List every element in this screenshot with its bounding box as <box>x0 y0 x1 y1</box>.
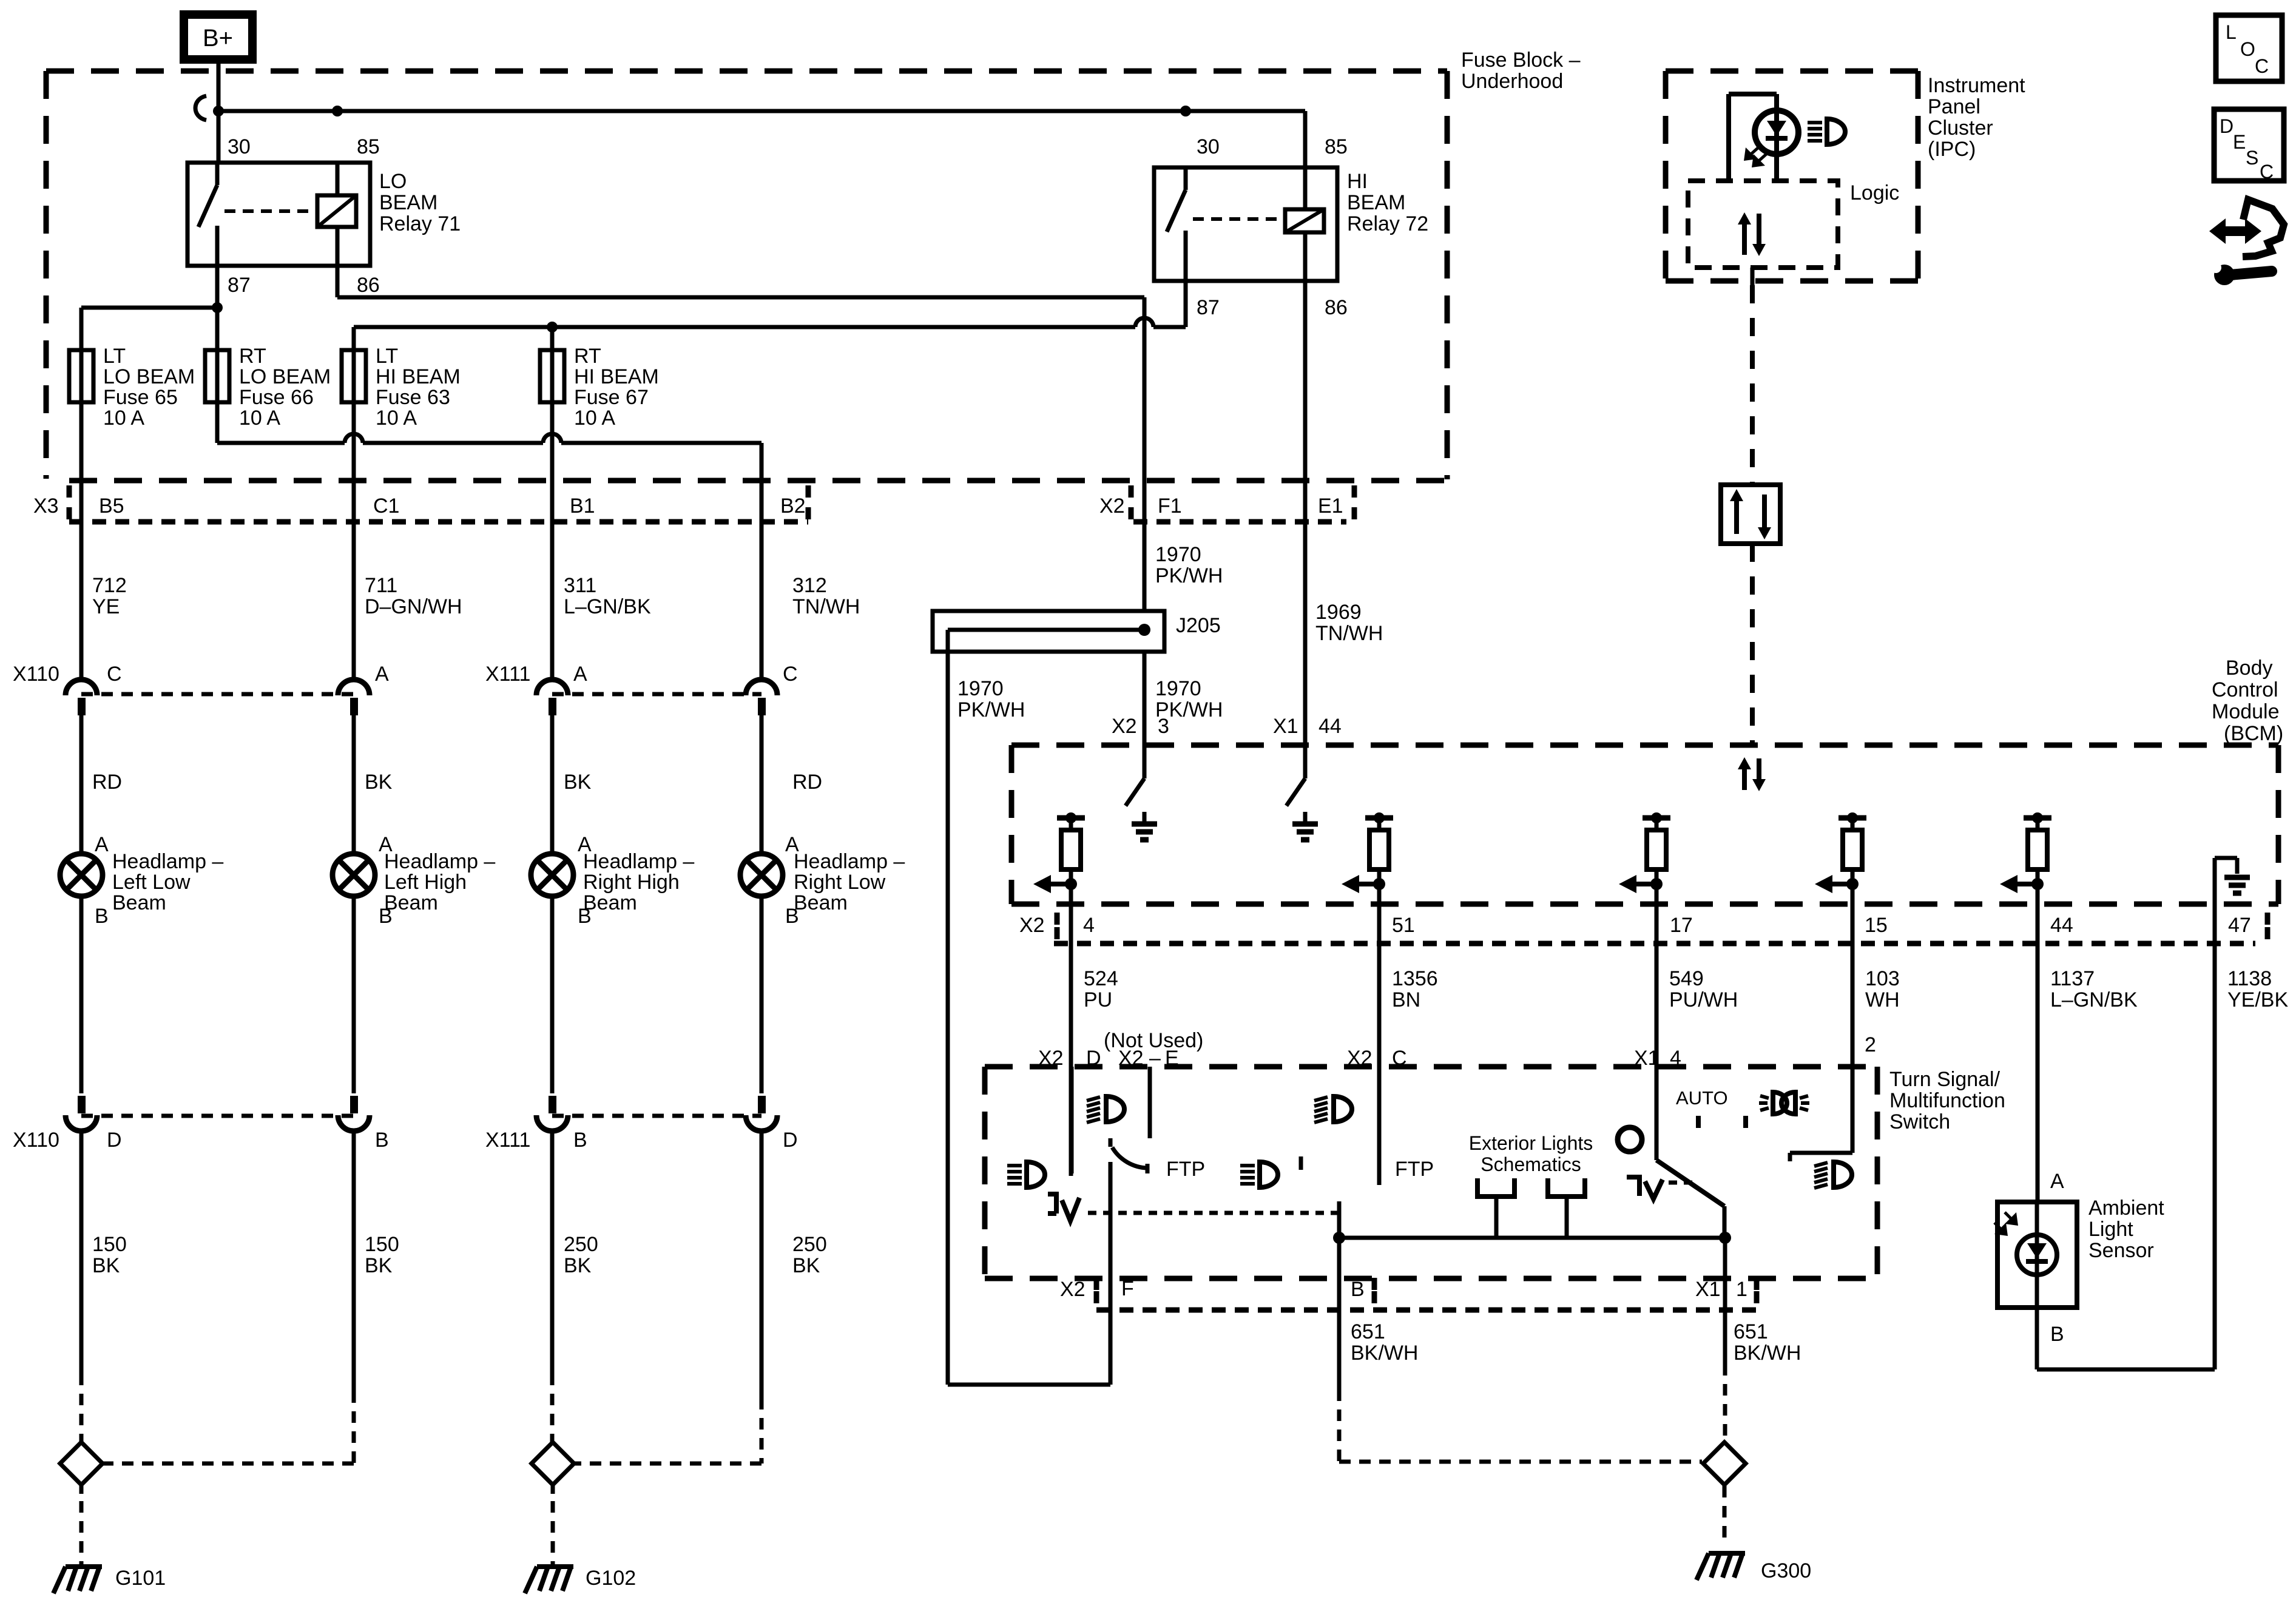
svg-text:PK/WH: PK/WH <box>1155 564 1223 587</box>
svg-text:BN: BN <box>1392 988 1420 1011</box>
svg-text:(IPC): (IPC) <box>1928 138 1976 161</box>
svg-text:150: 150 <box>365 1233 399 1256</box>
svg-text:RD: RD <box>792 771 822 794</box>
svg-text:E: E <box>2233 131 2246 153</box>
svg-text:FTP: FTP <box>1166 1158 1205 1181</box>
svg-text:C: C <box>107 663 122 686</box>
svg-text:G101: G101 <box>115 1567 166 1590</box>
svg-text:L: L <box>2226 21 2237 43</box>
svg-text:Body: Body <box>2226 657 2273 680</box>
svg-text:2: 2 <box>1865 1033 1876 1056</box>
svg-text:BK/WH: BK/WH <box>1351 1342 1418 1365</box>
svg-text:85: 85 <box>357 135 380 158</box>
svg-text:B: B <box>95 905 109 928</box>
svg-text:O: O <box>2240 38 2255 60</box>
svg-text:Left High: Left High <box>384 871 467 894</box>
svg-text:X3: X3 <box>33 495 59 518</box>
svg-text:10 A: 10 A <box>574 407 615 430</box>
svg-text:651: 651 <box>1734 1320 1768 1343</box>
svg-text:1970: 1970 <box>957 677 1004 700</box>
svg-text:Beam: Beam <box>794 891 848 914</box>
svg-text:X111: X111 <box>485 663 530 686</box>
svg-text:X111: X111 <box>485 1129 530 1152</box>
svg-text:(BCM): (BCM) <box>2224 722 2283 745</box>
svg-text:YE/BK: YE/BK <box>2227 988 2288 1011</box>
svg-text:86: 86 <box>1325 296 1348 319</box>
svg-text:312: 312 <box>792 574 827 597</box>
svg-text:Control: Control <box>2212 678 2278 701</box>
svg-text:15: 15 <box>1865 914 1888 937</box>
svg-text:S: S <box>2246 147 2258 169</box>
svg-text:Panel: Panel <box>1928 95 1980 118</box>
svg-text:BK: BK <box>564 771 592 794</box>
svg-text:Light: Light <box>2088 1218 2133 1241</box>
svg-text:87: 87 <box>228 274 251 297</box>
svg-text:10 A: 10 A <box>103 407 144 430</box>
svg-text:Headlamp –: Headlamp – <box>112 850 223 873</box>
svg-text:B: B <box>573 1129 587 1152</box>
svg-text:D: D <box>107 1129 122 1152</box>
svg-text:PK/WH: PK/WH <box>957 698 1025 721</box>
svg-text:1970: 1970 <box>1155 543 1201 566</box>
svg-text:Logic: Logic <box>1850 181 1899 204</box>
svg-text:BK: BK <box>365 1254 393 1277</box>
svg-text:1: 1 <box>1736 1278 1747 1301</box>
svg-text:RT: RT <box>574 345 601 368</box>
svg-text:BK: BK <box>564 1254 592 1277</box>
svg-text:Fuse Block –: Fuse Block – <box>1461 49 1581 72</box>
svg-text:Turn Signal/: Turn Signal/ <box>1889 1068 2001 1091</box>
svg-text:X2: X2 <box>1019 914 1045 937</box>
svg-text:B: B <box>578 905 592 928</box>
svg-text:LO: LO <box>379 170 407 193</box>
svg-text:4: 4 <box>1083 914 1095 937</box>
svg-text:Fuse 63: Fuse 63 <box>376 386 450 409</box>
svg-text:B: B <box>379 905 393 928</box>
svg-text:1969: 1969 <box>1315 601 1362 624</box>
svg-text:51: 51 <box>1392 914 1415 937</box>
svg-text:BEAM: BEAM <box>1347 191 1405 214</box>
svg-text:HI BEAM: HI BEAM <box>376 365 461 388</box>
svg-text:1137: 1137 <box>2050 967 2095 990</box>
svg-text:311: 311 <box>564 574 596 597</box>
svg-text:Switch: Switch <box>1889 1110 1950 1133</box>
svg-text:PU: PU <box>1084 988 1112 1011</box>
svg-text:X2: X2 <box>1112 715 1137 738</box>
svg-text:Relay 71: Relay 71 <box>379 212 461 235</box>
svg-text:L–GN/BK: L–GN/BK <box>2050 988 2138 1011</box>
svg-text:D: D <box>783 1129 798 1152</box>
svg-text:651: 651 <box>1351 1320 1385 1343</box>
svg-text:B: B <box>1351 1278 1365 1301</box>
svg-text:FTP: FTP <box>1395 1158 1434 1181</box>
svg-text:X1: X1 <box>1695 1278 1721 1301</box>
svg-text:86: 86 <box>357 274 380 297</box>
svg-text:BK: BK <box>92 1254 120 1277</box>
svg-text:524: 524 <box>1084 967 1118 990</box>
svg-text:B2: B2 <box>780 495 806 518</box>
svg-text:47: 47 <box>2228 914 2251 937</box>
svg-text:BK: BK <box>365 771 393 794</box>
svg-text:RD: RD <box>92 771 122 794</box>
svg-text:Instrument: Instrument <box>1928 74 2025 97</box>
svg-text:150: 150 <box>92 1233 127 1256</box>
svg-text:549: 549 <box>1669 967 1704 990</box>
svg-text:B1: B1 <box>570 495 595 518</box>
svg-text:J205: J205 <box>1176 614 1221 637</box>
svg-text:X2: X2 <box>1060 1278 1086 1301</box>
svg-text:Headlamp –: Headlamp – <box>794 850 905 873</box>
svg-text:X110: X110 <box>13 663 59 686</box>
svg-text:Left Low: Left Low <box>112 871 191 894</box>
svg-text:1970: 1970 <box>1155 677 1201 700</box>
svg-text:103: 103 <box>1865 967 1900 990</box>
svg-text:711: 711 <box>365 574 397 597</box>
svg-text:44: 44 <box>1319 715 1342 738</box>
svg-text:RT: RT <box>239 345 266 368</box>
svg-text:X110: X110 <box>13 1129 59 1152</box>
svg-text:Headlamp –: Headlamp – <box>384 850 495 873</box>
svg-text:BK: BK <box>792 1254 820 1277</box>
svg-text:B5: B5 <box>99 495 124 518</box>
svg-text:Multifunction: Multifunction <box>1889 1089 2005 1112</box>
svg-text:A: A <box>2050 1170 2064 1193</box>
svg-text:Fuse 67: Fuse 67 <box>574 386 649 409</box>
svg-text:D: D <box>2220 115 2234 137</box>
svg-text:WH: WH <box>1865 988 1900 1011</box>
svg-text:X1: X1 <box>1273 715 1298 738</box>
svg-text:G102: G102 <box>586 1567 636 1590</box>
svg-text:3: 3 <box>1158 715 1169 738</box>
svg-text:C1: C1 <box>373 495 399 518</box>
svg-text:Schematics: Schematics <box>1481 1153 1581 1175</box>
svg-text:F: F <box>1121 1277 1134 1300</box>
svg-text:1356: 1356 <box>1392 967 1438 990</box>
svg-text:Fuse 66: Fuse 66 <box>239 386 314 409</box>
svg-text:HI BEAM: HI BEAM <box>574 365 659 388</box>
svg-text:C: C <box>783 663 798 686</box>
svg-text:87: 87 <box>1197 296 1220 319</box>
svg-text:Sensor: Sensor <box>2088 1239 2154 1262</box>
svg-text:712: 712 <box>92 574 127 597</box>
svg-text:LT: LT <box>103 345 126 368</box>
svg-text:PU/WH: PU/WH <box>1669 988 1738 1011</box>
svg-text:A: A <box>573 663 587 686</box>
svg-text:B: B <box>375 1129 389 1152</box>
svg-text:30: 30 <box>228 135 251 158</box>
svg-text:Fuse 65: Fuse 65 <box>103 386 178 409</box>
svg-text:Underhood: Underhood <box>1461 70 1563 93</box>
svg-text:YE: YE <box>92 595 120 618</box>
svg-text:Exterior Lights: Exterior Lights <box>1469 1132 1593 1154</box>
svg-text:C: C <box>2260 161 2274 183</box>
svg-text:Beam: Beam <box>112 891 166 914</box>
svg-text:BEAM: BEAM <box>379 191 437 214</box>
svg-text:10 A: 10 A <box>376 407 417 430</box>
svg-text:E1: E1 <box>1318 495 1343 518</box>
svg-text:Module: Module <box>2212 700 2280 723</box>
svg-text:Ambient: Ambient <box>2088 1197 2164 1220</box>
svg-text:Right Low: Right Low <box>794 871 886 894</box>
svg-text:G300: G300 <box>1761 1559 1811 1582</box>
svg-text:Headlamp –: Headlamp – <box>583 850 694 873</box>
svg-text:Right High: Right High <box>583 871 680 894</box>
svg-text:250: 250 <box>792 1233 827 1256</box>
svg-text:10 A: 10 A <box>239 407 280 430</box>
svg-text:F1: F1 <box>1158 495 1182 518</box>
svg-text:AUTO: AUTO <box>1676 1087 1728 1109</box>
svg-text:HI: HI <box>1347 170 1368 193</box>
svg-text:TN/WH: TN/WH <box>1315 622 1383 645</box>
svg-text:L–GN/BK: L–GN/BK <box>564 595 651 618</box>
svg-text:1138: 1138 <box>2227 967 2272 990</box>
svg-text:B+: B+ <box>203 25 233 52</box>
svg-text:D–GN/WH: D–GN/WH <box>365 595 462 618</box>
svg-text:LT: LT <box>376 345 398 368</box>
svg-text:LO BEAM: LO BEAM <box>103 365 195 388</box>
svg-text:Cluster: Cluster <box>1928 116 1993 140</box>
svg-text:250: 250 <box>564 1233 598 1256</box>
svg-text:44: 44 <box>2050 914 2073 937</box>
svg-text:X2: X2 <box>1099 495 1125 518</box>
svg-text:30: 30 <box>1197 135 1220 158</box>
svg-text:BK/WH: BK/WH <box>1734 1342 1801 1365</box>
svg-text:C: C <box>2255 55 2269 77</box>
svg-text:A: A <box>95 833 109 856</box>
svg-text:85: 85 <box>1325 135 1348 158</box>
svg-text:17: 17 <box>1670 914 1693 937</box>
svg-text:B: B <box>2050 1323 2064 1346</box>
svg-text:Relay 72: Relay 72 <box>1347 212 1428 235</box>
svg-text:LO BEAM: LO BEAM <box>239 365 331 388</box>
svg-text:B: B <box>785 905 799 928</box>
svg-text:TN/WH: TN/WH <box>792 595 860 618</box>
svg-text:A: A <box>375 663 389 686</box>
